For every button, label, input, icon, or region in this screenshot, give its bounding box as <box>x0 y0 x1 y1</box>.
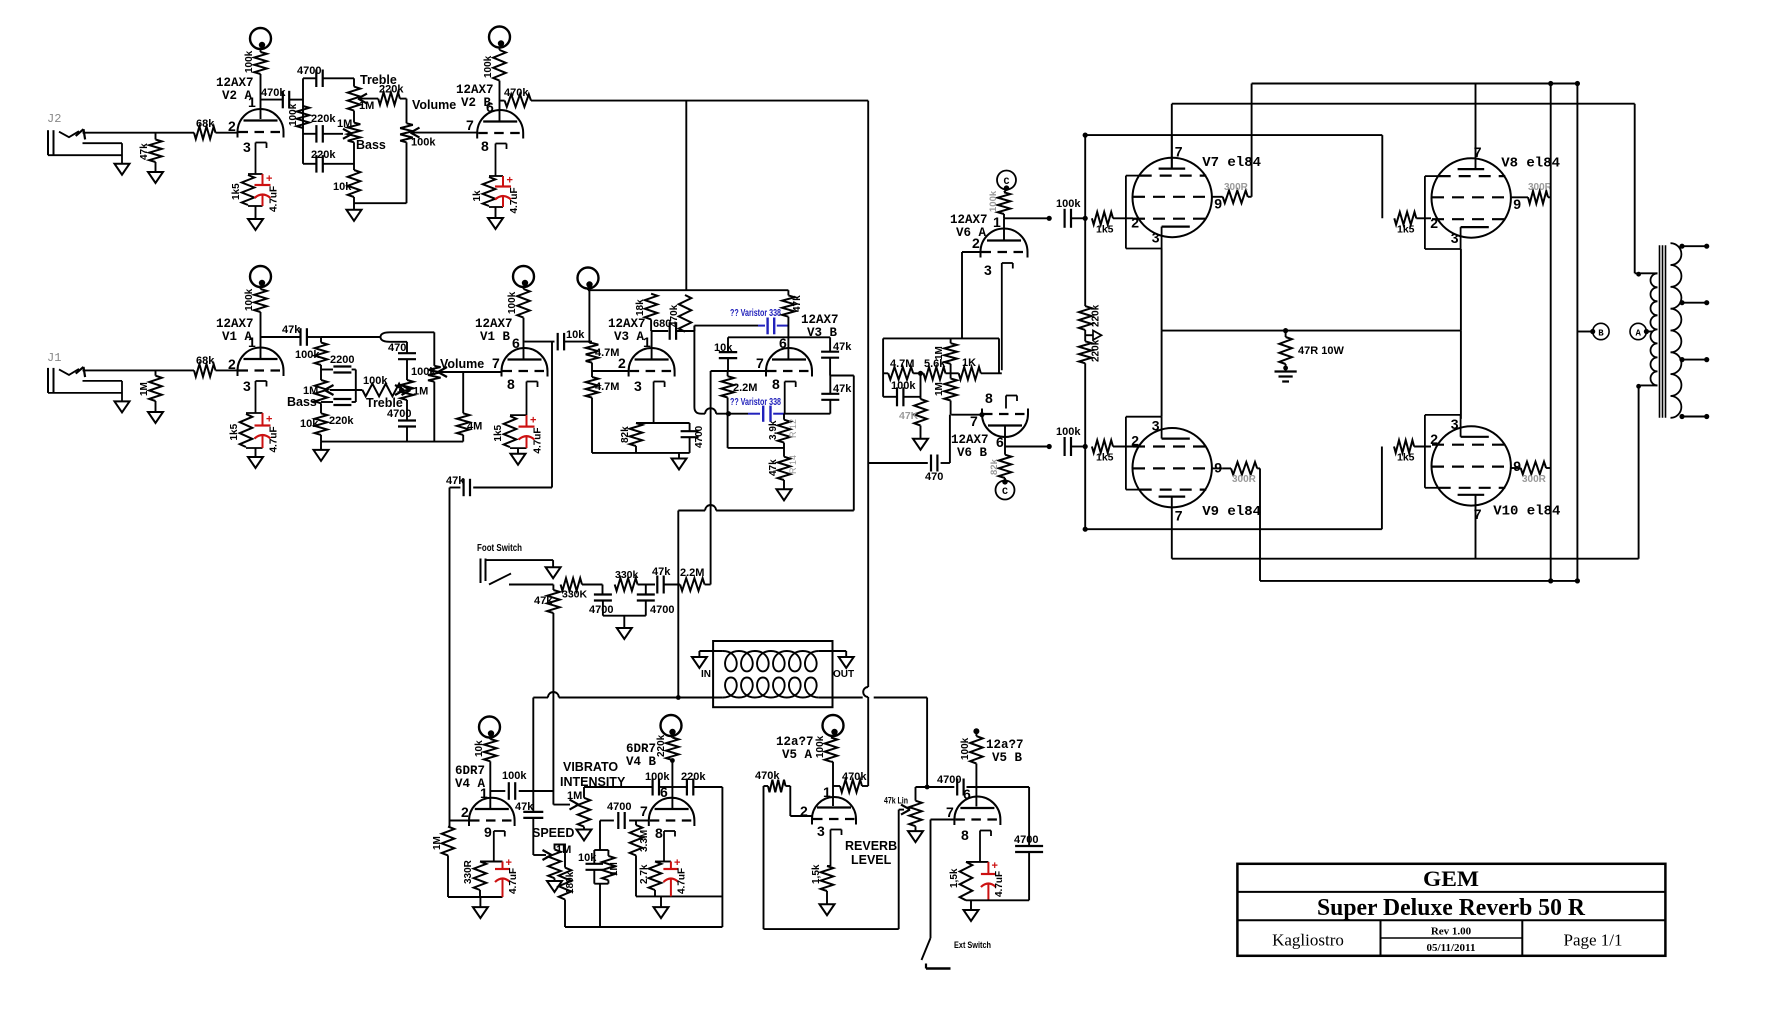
svg-text:1M: 1M <box>359 100 374 112</box>
svg-text:4M: 4M <box>467 421 482 433</box>
svg-text:300R: 300R <box>1528 182 1553 193</box>
svg-text:1k5: 1k5 <box>1096 224 1114 236</box>
svg-text:1k5: 1k5 <box>1397 452 1415 464</box>
svg-text:V4 B: V4 B <box>626 755 657 769</box>
svg-text:+: + <box>266 173 272 185</box>
svg-text:47k: 47k <box>446 475 465 487</box>
svg-text:12AX7: 12AX7 <box>475 317 513 331</box>
svg-text:REVERB: REVERB <box>845 839 897 853</box>
svg-text:470: 470 <box>388 342 406 354</box>
svg-text:3.3M: 3.3M <box>639 830 650 852</box>
svg-text:Bass: Bass <box>287 395 317 409</box>
svg-text:47K: 47K <box>899 410 919 422</box>
svg-text:10k: 10k <box>474 740 485 757</box>
svg-text:4700: 4700 <box>937 774 961 786</box>
svg-text:J2: J2 <box>47 112 61 126</box>
svg-text:V9 el84: V9 el84 <box>1202 504 1261 520</box>
svg-text:7: 7 <box>640 803 648 819</box>
svg-text:+: + <box>992 860 998 872</box>
svg-text:Page 1/1: Page 1/1 <box>1563 931 1622 950</box>
svg-text:1M: 1M <box>934 382 945 396</box>
svg-text:V5 A: V5 A <box>782 748 813 762</box>
svg-text:220k: 220k <box>311 149 336 161</box>
svg-text:100k: 100k <box>295 349 320 361</box>
svg-text:180k: 180k <box>565 871 576 894</box>
svg-text:100k: 100k <box>988 190 999 212</box>
svg-text:4.7uF: 4.7uF <box>533 427 544 453</box>
svg-text:OUT: OUT <box>833 669 854 680</box>
svg-text:7: 7 <box>756 355 764 371</box>
svg-text:1: 1 <box>993 214 1001 230</box>
svg-text:100k: 100k <box>288 103 299 126</box>
svg-text:47k: 47k <box>515 801 534 813</box>
svg-text:Volume: Volume <box>412 98 456 112</box>
svg-text:220k: 220k <box>1091 304 1102 327</box>
svg-text:68k: 68k <box>196 118 215 130</box>
svg-text:7: 7 <box>466 117 474 133</box>
svg-text:1k5: 1k5 <box>229 423 240 440</box>
svg-text:2.2M: 2.2M <box>680 567 704 579</box>
svg-text:12AX7: 12AX7 <box>608 317 646 331</box>
svg-text:300R: 300R <box>1522 474 1547 485</box>
svg-text:47k: 47k <box>534 595 553 607</box>
svg-text:47k Lin: 47k Lin <box>884 796 908 807</box>
svg-text:Foot Switch: Foot Switch <box>477 543 522 554</box>
svg-text:3: 3 <box>1152 418 1160 434</box>
svg-text:47k: 47k <box>652 566 671 578</box>
svg-text:+: + <box>506 857 512 869</box>
svg-text:4700: 4700 <box>387 408 411 420</box>
svg-text:10k: 10k <box>300 418 319 430</box>
svg-text:R 14: R 14 <box>788 455 798 474</box>
svg-text:1M: 1M <box>609 862 620 876</box>
svg-text:47k: 47k <box>833 341 852 353</box>
svg-text:47k: 47k <box>768 459 779 476</box>
svg-text:2: 2 <box>618 355 626 371</box>
svg-text:82k: 82k <box>620 426 631 443</box>
svg-text:1k5: 1k5 <box>493 424 504 441</box>
svg-text:47k: 47k <box>833 383 852 395</box>
svg-text:7: 7 <box>946 804 954 820</box>
svg-text:+: + <box>266 414 272 426</box>
svg-text:1k5: 1k5 <box>1397 224 1415 236</box>
svg-text:SPEED: SPEED <box>532 826 574 840</box>
svg-text:1,5k: 1,5k <box>949 868 960 888</box>
svg-text:18k: 18k <box>635 299 646 316</box>
svg-text:4700: 4700 <box>694 425 705 448</box>
svg-text:05/11/2011: 05/11/2011 <box>1427 942 1476 954</box>
svg-text:1k: 1k <box>472 190 483 202</box>
svg-text:2: 2 <box>1430 431 1438 447</box>
svg-text:1K: 1K <box>962 357 976 369</box>
svg-text:12AX7: 12AX7 <box>216 317 254 331</box>
svg-text:3: 3 <box>1152 230 1160 246</box>
svg-text:V6 B: V6 B <box>957 446 988 460</box>
svg-text:Bass: Bass <box>356 138 386 152</box>
svg-text:V3 A: V3 A <box>614 330 645 344</box>
svg-text:12AX7: 12AX7 <box>950 213 988 227</box>
svg-text:1M: 1M <box>139 382 150 396</box>
svg-text:100k: 100k <box>244 50 255 73</box>
svg-text:4700: 4700 <box>650 604 674 616</box>
svg-text:6DR7: 6DR7 <box>626 742 656 756</box>
svg-text:680: 680 <box>653 318 671 330</box>
svg-text:4.7uF: 4.7uF <box>508 868 519 894</box>
svg-text:3: 3 <box>634 378 642 394</box>
svg-text:8: 8 <box>772 376 780 392</box>
svg-text:4.7M: 4.7M <box>595 347 619 359</box>
svg-text:47k: 47k <box>282 324 301 336</box>
svg-text:220k: 220k <box>656 734 667 757</box>
svg-text:+: + <box>674 857 680 869</box>
svg-text:J1: J1 <box>47 351 61 365</box>
svg-text:12a?7: 12a?7 <box>986 738 1024 752</box>
svg-text:100k: 100k <box>507 291 518 314</box>
svg-text:7: 7 <box>492 355 500 371</box>
svg-text:12AX7: 12AX7 <box>216 76 254 90</box>
svg-text:Rev 1.00: Rev 1.00 <box>1431 926 1472 938</box>
svg-text:100k: 100k <box>483 55 494 78</box>
svg-text:9: 9 <box>1513 196 1521 212</box>
svg-text:12AX7: 12AX7 <box>801 313 839 327</box>
svg-text:100k: 100k <box>244 288 255 311</box>
svg-text:2: 2 <box>1131 433 1139 449</box>
svg-text:1M: 1M <box>337 118 352 130</box>
svg-text:330R: 330R <box>463 859 474 884</box>
svg-text:3: 3 <box>1451 230 1459 246</box>
svg-text:7: 7 <box>1175 144 1183 160</box>
svg-text:3: 3 <box>243 378 251 394</box>
svg-text:2: 2 <box>228 118 236 134</box>
svg-text:IN: IN <box>701 669 711 680</box>
svg-text:1M: 1M <box>432 836 443 850</box>
svg-text:4.7uF: 4.7uF <box>509 187 520 213</box>
svg-text:1k5: 1k5 <box>231 183 242 200</box>
svg-text:?? Varistor 338: ?? Varistor 338 <box>730 308 781 319</box>
svg-text:2: 2 <box>1430 215 1438 231</box>
svg-text:+: + <box>507 175 513 187</box>
svg-text:3: 3 <box>1451 416 1459 432</box>
svg-text:100k: 100k <box>502 770 527 782</box>
svg-text:6DR7: 6DR7 <box>455 764 485 778</box>
svg-text:1: 1 <box>248 94 256 110</box>
svg-text:LEVEL: LEVEL <box>851 853 892 867</box>
svg-text:220k: 220k <box>681 771 706 783</box>
svg-text:3: 3 <box>243 139 251 155</box>
svg-text:8: 8 <box>507 376 515 392</box>
svg-text:1k5: 1k5 <box>1096 452 1114 464</box>
svg-text:9: 9 <box>1214 196 1222 212</box>
svg-text:4.7uF: 4.7uF <box>994 871 1005 897</box>
svg-text:4700: 4700 <box>1014 834 1038 846</box>
svg-text:Kagliostro: Kagliostro <box>1272 931 1344 950</box>
svg-text:4.7uF: 4.7uF <box>269 426 280 452</box>
svg-text:8: 8 <box>655 825 663 841</box>
svg-text:330K: 330K <box>562 589 588 601</box>
svg-text:Ext Switch: Ext Switch <box>954 940 991 951</box>
svg-text:A: A <box>1635 329 1641 339</box>
svg-text:4700: 4700 <box>297 65 321 77</box>
svg-text:100k: 100k <box>815 735 826 758</box>
svg-text:3.9k: 3.9k <box>768 420 779 440</box>
svg-text:47k: 47k <box>792 295 803 312</box>
svg-text:10k: 10k <box>714 342 733 354</box>
svg-text:V5 B: V5 B <box>992 751 1023 765</box>
svg-text:470k: 470k <box>842 771 867 783</box>
svg-text:8: 8 <box>481 138 489 154</box>
svg-text:10k: 10k <box>578 852 597 864</box>
svg-text:4700: 4700 <box>589 604 613 616</box>
svg-text:R 12: R 12 <box>788 419 798 438</box>
svg-text:470k: 470k <box>504 87 529 99</box>
svg-text:7: 7 <box>1175 508 1183 524</box>
svg-text:C: C <box>1002 487 1008 498</box>
svg-text:8: 8 <box>961 827 969 843</box>
svg-text:220k: 220k <box>311 113 336 125</box>
svg-text:1,5k: 1,5k <box>811 864 822 884</box>
svg-text:1M: 1M <box>934 346 945 360</box>
svg-text:68k: 68k <box>196 355 215 367</box>
svg-text:1M: 1M <box>556 844 571 856</box>
svg-text:2.7k: 2.7k <box>639 864 650 884</box>
svg-text:+: + <box>530 415 536 427</box>
svg-text:2: 2 <box>1131 215 1139 231</box>
svg-text:2: 2 <box>972 235 980 251</box>
svg-text:12AX7: 12AX7 <box>456 83 494 97</box>
svg-text:3: 3 <box>984 262 992 278</box>
svg-text:4.7M: 4.7M <box>595 381 619 393</box>
svg-text:300R: 300R <box>1232 474 1257 485</box>
svg-text:9: 9 <box>484 824 492 840</box>
svg-text:100k: 100k <box>891 380 916 392</box>
svg-text:470: 470 <box>925 471 943 483</box>
svg-text:Volume: Volume <box>440 357 484 371</box>
svg-text:B: B <box>1598 329 1604 339</box>
svg-text:3: 3 <box>817 823 825 839</box>
svg-text:100k: 100k <box>363 375 388 387</box>
svg-text:4.7M: 4.7M <box>890 358 914 370</box>
svg-text:12a?7: 12a?7 <box>776 735 814 749</box>
svg-text:4.7uF: 4.7uF <box>269 186 280 212</box>
svg-text:Super Deluxe Reverb 50 R: Super Deluxe Reverb 50 R <box>1317 895 1586 921</box>
svg-text:100k: 100k <box>411 137 436 149</box>
svg-text:VIBRATO: VIBRATO <box>563 760 618 774</box>
svg-text:300R: 300R <box>1224 182 1249 193</box>
svg-text:2: 2 <box>228 356 236 372</box>
svg-text:82k: 82k <box>989 458 1000 475</box>
svg-text:470k: 470k <box>261 87 286 99</box>
svg-text:100k: 100k <box>1056 198 1081 210</box>
svg-text:2.2M: 2.2M <box>733 382 757 394</box>
svg-text:2200: 2200 <box>330 354 354 366</box>
svg-text:47k: 47k <box>139 143 150 160</box>
svg-text:470k: 470k <box>755 770 780 782</box>
svg-text:GEM: GEM <box>1423 866 1479 891</box>
svg-text:100k: 100k <box>411 366 436 378</box>
svg-text:10k: 10k <box>566 329 585 341</box>
svg-text:V1 B: V1 B <box>480 330 511 344</box>
svg-text:4.7uF: 4.7uF <box>677 868 688 894</box>
svg-text:4700: 4700 <box>607 801 631 813</box>
svg-text:8: 8 <box>985 390 993 406</box>
svg-text:100k: 100k <box>960 737 971 760</box>
svg-text:100k: 100k <box>645 771 670 783</box>
svg-text:10k: 10k <box>333 181 352 193</box>
svg-text:1M: 1M <box>413 386 428 398</box>
svg-text:2: 2 <box>461 804 469 820</box>
svg-text:220k: 220k <box>329 415 354 427</box>
svg-text:12AX7: 12AX7 <box>951 433 989 447</box>
svg-text:47R 10W: 47R 10W <box>1298 345 1344 357</box>
svg-text:9: 9 <box>1513 458 1521 474</box>
svg-text:220k: 220k <box>1091 339 1102 362</box>
svg-text:100k: 100k <box>1056 426 1081 438</box>
svg-text:1M: 1M <box>567 790 582 802</box>
svg-text:?? Varistor 338: ?? Varistor 338 <box>730 397 781 408</box>
